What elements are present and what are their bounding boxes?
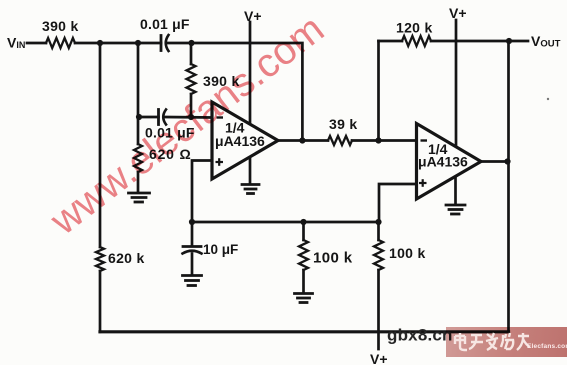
wire 100k R8 top lead	[377, 222, 380, 240]
wire 39k to op-amp U2 inverting input	[352, 139, 417, 142]
op-amp U2 minus sign	[421, 139, 428, 141]
banner chinese characters	[455, 333, 530, 350]
svg-text:120 k: 120 k	[396, 20, 433, 36]
node VIN input stub wire	[27, 42, 46, 45]
svg-text:VIN: VIN	[7, 35, 25, 51]
resistor R8 100k	[374, 240, 383, 270]
resistor R1 390k input	[46, 38, 75, 48]
wire R8 to bottom V+	[377, 270, 380, 349]
wire left vertical from VIN node down to bottom rail	[99, 43, 102, 247]
resistor R3 620 ohm	[134, 144, 142, 172]
wire ground stub op-amp U1	[249, 158, 252, 184]
svg-text:μA4136: μA4136	[215, 133, 265, 149]
svg-text:390 k: 390 k	[42, 18, 79, 34]
wire ground stub op-amp U2	[454, 176, 457, 204]
svg-text:gbx8.cn: gbx8.cn	[387, 326, 453, 345]
speck	[547, 98, 549, 100]
wire C2 node down to 620 ohm	[137, 117, 140, 144]
wire 10uF top lead	[191, 222, 194, 245]
wire op-amp U2 non-inverting input to bias rail	[379, 184, 417, 222]
wire top feedback rail left segment	[379, 40, 403, 43]
wire C1 to feedback corner and down to op-amp U1 output	[168, 43, 303, 141]
svg-text:V+: V+	[244, 8, 262, 24]
resistor R7 120k	[402, 36, 431, 46]
ground G3 under 10uF	[183, 276, 202, 286]
svg-text:10 μF: 10 μF	[203, 242, 238, 257]
svg-text:100 k: 100 k	[313, 250, 353, 267]
wire op-amp U1 output line	[278, 139, 328, 142]
svg-text:μA4136: μA4136	[418, 154, 468, 170]
wire R2 bottom lead to inverting node	[190, 94, 193, 117]
wire bottom feedback rail	[100, 330, 509, 333]
svg-text:620 k: 620 k	[108, 250, 145, 266]
resistor R6 620k	[96, 247, 104, 271]
wire C2 to op-amp U1 inverting input	[165, 116, 212, 119]
wire VOUT stub	[509, 40, 528, 43]
resistor R4 100k	[299, 240, 308, 270]
svg-text:V+: V+	[449, 5, 467, 21]
wire 620 ohm to ground	[137, 172, 140, 191]
svg-text:100 k: 100 k	[389, 245, 426, 261]
ground G1 under 620 ohm	[129, 193, 150, 202]
wire R4 to ground	[302, 270, 305, 292]
wire vertical x=138 from top rail to C2 node	[137, 43, 140, 117]
resistor R2 390k	[187, 64, 196, 94]
resistor R5 39k	[328, 136, 352, 145]
wire 620k to bottom rail	[99, 271, 102, 332]
banner elecfans red logo	[446, 327, 567, 357]
op-amp U1 plus sign	[216, 158, 224, 166]
wire V+ supply stub op-amp U1	[249, 22, 252, 125]
wire 100k R4 top lead	[302, 222, 305, 240]
wire op-amp U2 output	[481, 160, 509, 163]
junction node dots	[97, 38, 512, 225]
watermark www.elecfans.com	[42, 6, 333, 244]
svg-text:0.01 μF: 0.01 μF	[140, 16, 190, 32]
wire 120k to VOUT node	[431, 40, 509, 43]
svg-text:VOUT: VOUT	[531, 33, 561, 50]
svg-text:V+: V+	[370, 351, 388, 365]
op-amp U1 minus sign	[217, 116, 224, 118]
ground G2 under op-amp U1	[242, 185, 259, 194]
wire 10uF to ground	[191, 254, 194, 275]
capacitor C2 0.01uF plates	[157, 110, 160, 125]
wire C2 left lead	[138, 116, 159, 119]
op-amp U2 triangle	[417, 124, 482, 200]
wire feedback vertical to top rail	[377, 41, 380, 141]
resistor R2 390k vertical lead top	[190, 43, 193, 64]
op-amp U2 plus sign	[419, 179, 427, 187]
wire bias rail	[192, 221, 379, 224]
capacitor C1 0.01uF plates	[160, 36, 163, 51]
capacitor C3 10uF plates	[183, 245, 201, 248]
wire op-amp U1 non-inverting input to bias rail	[192, 161, 212, 223]
wire right vertical VOUT to bottom rail	[507, 41, 510, 332]
ground G5 under op-amp U2	[446, 205, 465, 214]
wire V+ supply stub op-amp U2	[455, 20, 458, 146]
wire top left rail	[75, 42, 161, 45]
ground G4 under R4	[295, 294, 313, 303]
svg-text:39 k: 39 k	[329, 116, 357, 132]
op-amp U1 triangle	[212, 102, 278, 179]
